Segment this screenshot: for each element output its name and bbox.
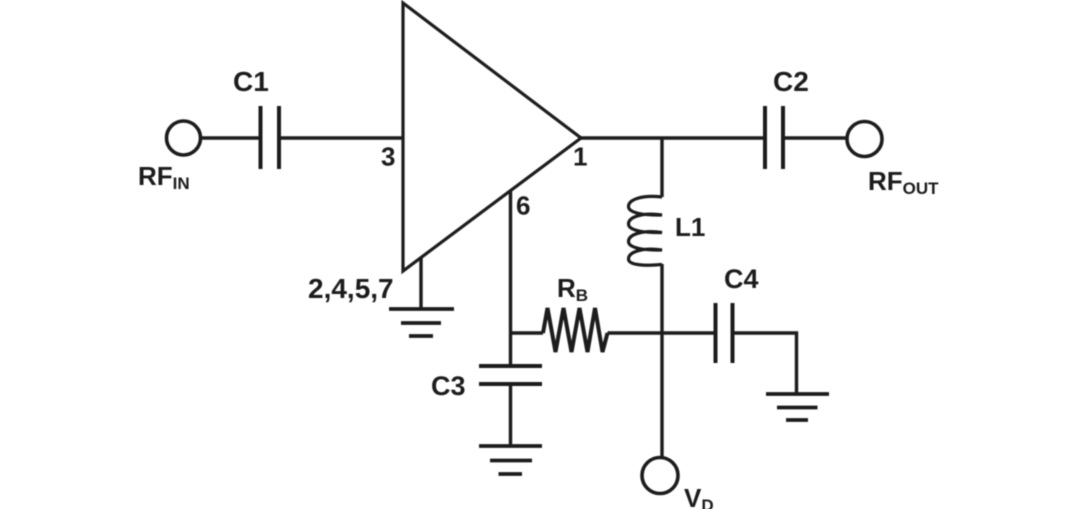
- wire amplifier output to C2: [581, 136, 765, 139]
- capacitor C4: [716, 303, 733, 363]
- wire RB to node: [608, 331, 663, 334]
- ground C4: [766, 394, 829, 420]
- resistor RB: [543, 308, 608, 352]
- wire RF_IN to C1: [200, 136, 260, 139]
- svg-text:3: 3: [381, 142, 395, 172]
- svg-text:C3: C3: [431, 371, 466, 401]
- wire C3 to ground: [509, 384, 512, 446]
- svg-text:VD: VD: [684, 483, 714, 509]
- svg-text:2,4,5,7: 2,4,5,7: [308, 273, 394, 304]
- op-amp U1 amplifier triangle: [403, 3, 581, 271]
- svg-text:RFIN: RFIN: [138, 161, 190, 193]
- terminal RF_IN: [167, 121, 201, 155]
- svg-text:1: 1: [573, 142, 587, 172]
- wire L1 to node: [660, 264, 663, 333]
- wire node to C4: [662, 331, 716, 334]
- terminal VD: [642, 458, 678, 494]
- wire C2 to RF_OUT: [783, 136, 847, 139]
- wire pin 6 to resistor RB: [511, 331, 544, 334]
- wire node to VD terminal: [660, 333, 663, 457]
- svg-text:C2: C2: [773, 66, 809, 97]
- capacitor C3: [479, 366, 542, 384]
- ground amplifier: [389, 309, 454, 336]
- inductor L1 branch wire top: [660, 138, 663, 197]
- capacitor C2: [765, 106, 783, 169]
- capacitor C1: [261, 106, 280, 169]
- svg-text:C4: C4: [724, 264, 759, 294]
- svg-text:RB: RB: [557, 273, 588, 305]
- svg-text:L1: L1: [675, 212, 705, 242]
- wire C4 to ground: [733, 333, 797, 394]
- terminal RF_OUT: [847, 122, 882, 157]
- inductor L1 coil: [629, 196, 663, 265]
- wire C1 to amplifier input pin 3: [279, 136, 403, 139]
- ground C3: [479, 446, 542, 474]
- svg-text:C1: C1: [233, 66, 269, 97]
- wire pins 2,4,5,7 to ground: [419, 257, 422, 308]
- svg-text:6: 6: [516, 191, 530, 221]
- wire pin 6 down to C3: [509, 191, 512, 366]
- svg-text:RFOUT: RFOUT: [868, 166, 939, 198]
